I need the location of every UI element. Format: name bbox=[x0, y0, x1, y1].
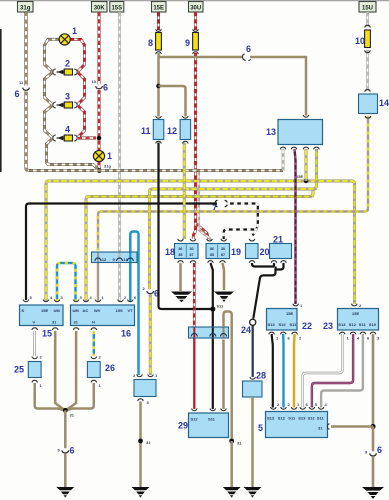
svg-text:AC: AC bbox=[83, 308, 89, 313]
wire box13 pin2 violet down to box22 bbox=[295, 149, 296, 304]
svg-text:S11: S11 bbox=[290, 322, 298, 327]
box 28 bbox=[243, 371, 267, 398]
svg-text:S11: S11 bbox=[317, 416, 325, 421]
break symbol 6 on bus B riser bbox=[143, 286, 160, 299]
wire 30K feed (red/white dashed vertical) bbox=[98, 12, 101, 84]
relay box 19 bbox=[206, 239, 241, 263]
svg-text:25: 25 bbox=[14, 365, 24, 375]
svg-text:86: 86 bbox=[210, 247, 214, 251]
svg-text:15E: 15E bbox=[296, 174, 303, 179]
wire box13 pin3 riser bbox=[305, 149, 308, 181]
svg-text:15E: 15E bbox=[286, 311, 293, 316]
wire bus B resume below break to box17 right pin bbox=[149, 295, 152, 375]
wire 31g feed lower part bbox=[26, 92, 29, 171]
break symbol 6 (left ground wire) bbox=[58, 446, 75, 456]
wire cyan/yellow loop box15 UM to box16 UM bbox=[57, 263, 76, 302]
relay box 12 bbox=[167, 116, 191, 144]
svg-text:S12: S12 bbox=[308, 416, 316, 421]
junction node 31 (tan chain) bbox=[229, 439, 242, 446]
wire box16 pin 31 to ground junction bbox=[67, 331, 77, 410]
svg-text:31: 31 bbox=[146, 440, 151, 445]
wire box 28 to ground bbox=[251, 397, 254, 487]
wire node to ground (tan chain) bbox=[230, 441, 233, 487]
junction node fuse4 row / 30K bbox=[97, 136, 102, 141]
wire grey bus y=211.5 (box14 riser across to x=98) bbox=[98, 116, 368, 251]
wire box23 S10 tan down to junction bbox=[372, 334, 375, 427]
svg-text:30: 30 bbox=[221, 247, 225, 251]
svg-text:31g: 31g bbox=[104, 164, 111, 169]
svg-text:K: K bbox=[22, 308, 25, 313]
svg-text:9: 9 bbox=[185, 38, 190, 48]
ground symbol (box 28) bbox=[244, 487, 262, 498]
wire red solid section to box29 bbox=[193, 334, 195, 409]
wire box22 S13 black to box5 bbox=[272, 334, 273, 408]
wire 30U below fuse 9 down to branch bbox=[193, 53, 195, 239]
relay unit box 29 bbox=[178, 409, 229, 438]
svg-text:12: 12 bbox=[167, 126, 177, 136]
svg-text:28: 28 bbox=[256, 371, 266, 381]
junction node at (158.5,86) bbox=[156, 84, 161, 89]
svg-text:10: 10 bbox=[92, 79, 97, 84]
fuse row 3 bbox=[53, 92, 77, 109]
svg-text:1: 1 bbox=[72, 26, 77, 36]
wire black/white dashed from break 7 to box20 and box19 bbox=[227, 204, 258, 236]
wire yellow bus B y=189 (box13 pin4 left to riser x=149.5) bbox=[150, 149, 317, 289]
break symbol 6 on 30K wire bbox=[92, 79, 109, 93]
page left edge bbox=[0, 29, 2, 172]
wire black bus y=203.5 (box15 pin K riser to break 7) bbox=[26, 204, 217, 301]
net label 15S bbox=[110, 2, 124, 13]
wire junction down to break bbox=[64, 410, 67, 448]
ladder right side (red/white dashed) bbox=[70, 39, 96, 138]
svg-text:2: 2 bbox=[65, 59, 70, 69]
svg-text:S13: S13 bbox=[298, 416, 306, 421]
wire black/white dashed branch to box19 right pin bbox=[224, 230, 258, 240]
wire 31g feed (brown/white dashed vertical) bbox=[24, 12, 27, 86]
wire break to ground (right) bbox=[372, 457, 375, 487]
ground symbol (tan chain) bbox=[223, 487, 241, 498]
ground symbol (right) bbox=[362, 487, 384, 499]
svg-text:10: 10 bbox=[355, 36, 365, 46]
net label 30K bbox=[92, 2, 108, 13]
ladder left side (tan/white dashed) bbox=[45, 39, 100, 170]
svg-text:6: 6 bbox=[246, 44, 251, 54]
connector strip bar 2 (above box 29) bbox=[189, 327, 229, 338]
junction node lamp to 31g bus bbox=[97, 168, 102, 173]
svg-text:15S: 15S bbox=[111, 5, 122, 11]
display box 17 bbox=[133, 373, 158, 405]
break symbol 6 (right ground wire) bbox=[365, 445, 382, 456]
wire box5 pin31 right to junction bbox=[331, 425, 373, 428]
svg-text:30U: 30U bbox=[190, 5, 201, 11]
svg-text:S12: S12 bbox=[279, 322, 287, 327]
wire box19 left pin black to S11 node and box29 bbox=[211, 263, 213, 409]
relay box 18 bbox=[165, 239, 198, 263]
ground symbol (under box 18) bbox=[171, 292, 192, 303]
wire grey companion from 31g bus to box19 left pin bbox=[199, 172, 210, 240]
fuse row 4 bbox=[53, 125, 77, 142]
svg-text:30: 30 bbox=[190, 247, 194, 251]
svg-text:S11: S11 bbox=[288, 416, 296, 421]
wire box 26 to ground junction bbox=[66, 383, 94, 410]
ground symbol (under box 19, S11) bbox=[214, 292, 234, 303]
break symbol 6 on y57 wire bbox=[242, 44, 251, 60]
instrument unit box 16 bbox=[71, 295, 138, 339]
net label 15E bbox=[152, 2, 167, 13]
svg-text:31: 31 bbox=[70, 413, 75, 418]
net label 15U bbox=[359, 2, 376, 13]
wire 30U feed (red/white dashed) to fuse 9 bbox=[194, 12, 197, 30]
svg-text:14: 14 bbox=[379, 98, 389, 108]
svg-text:UM: UM bbox=[73, 308, 80, 313]
wire lamp1 bottom to 31g bus bbox=[98, 161, 101, 171]
wire red branch to box19 left pin bbox=[197, 224, 209, 239]
svg-text:6: 6 bbox=[377, 445, 382, 455]
svg-text:85: 85 bbox=[179, 253, 183, 257]
wire box13 pin1 riser to 31g bus bbox=[282, 149, 285, 171]
connector box 22 bbox=[267, 303, 313, 341]
svg-text:S12: S12 bbox=[278, 416, 286, 421]
svg-text:8: 8 bbox=[148, 38, 153, 48]
svg-text:15E: 15E bbox=[41, 308, 48, 313]
wire junction down to break (right) bbox=[372, 427, 375, 452]
net label 30U bbox=[189, 2, 204, 13]
svg-text:S13: S13 bbox=[268, 322, 276, 327]
switch box 21 bbox=[270, 235, 292, 263]
svg-text:26: 26 bbox=[105, 363, 115, 373]
wire box23 S13 white to box5 pin6 bbox=[303, 334, 343, 408]
svg-text:UM: UM bbox=[54, 308, 61, 313]
wire box23 S12 violet to box5 pin5 bbox=[312, 334, 353, 408]
control unit box 13 bbox=[266, 115, 323, 149]
svg-text:11: 11 bbox=[141, 126, 151, 136]
wire fuse 10 to box 14 bbox=[366, 50, 369, 91]
svg-text:23: 23 bbox=[323, 321, 333, 331]
main unit box 5 bbox=[258, 402, 330, 438]
wire box16 pin H cyan/yellow to box 26 bbox=[93, 331, 96, 356]
svg-text:S13: S13 bbox=[267, 416, 275, 421]
svg-text:1: 1 bbox=[107, 151, 112, 161]
svg-text:31g: 31g bbox=[20, 5, 31, 11]
connector strip bar (components 12/9/11 plugs) bbox=[92, 252, 138, 263]
box 14 bbox=[359, 90, 389, 119]
resistor box 25 bbox=[14, 355, 43, 389]
svg-text:6: 6 bbox=[103, 83, 108, 93]
svg-text:3: 3 bbox=[65, 92, 70, 102]
svg-text:6: 6 bbox=[15, 89, 20, 99]
wire from bar2 third plug up and over to lower ground chain bbox=[224, 312, 232, 442]
svg-text:H: H bbox=[92, 319, 95, 324]
svg-text:S11: S11 bbox=[208, 417, 216, 422]
svg-text:87: 87 bbox=[190, 253, 194, 257]
svg-text:4: 4 bbox=[65, 125, 70, 135]
ground junction node 31 (left) bbox=[63, 408, 75, 418]
wire cyan loop box16 VT to box17 left pin bbox=[130, 232, 138, 376]
connector circle 24 bbox=[241, 319, 256, 335]
wire break to ground (left) bbox=[64, 454, 67, 487]
svg-text:VT: VT bbox=[128, 308, 134, 313]
svg-text:31: 31 bbox=[318, 426, 323, 431]
svg-text:85: 85 bbox=[210, 253, 214, 257]
wire yellow bus A y=181 (box15 pin 15E to box13 pin3 to box23) bbox=[46, 181, 355, 304]
svg-text:12: 12 bbox=[102, 257, 107, 262]
svg-text:31: 31 bbox=[52, 319, 57, 324]
wire tan bus y57 from fuse8 to corner above box13 bbox=[159, 57, 307, 116]
svg-text:86: 86 bbox=[179, 247, 183, 251]
svg-text:S11: S11 bbox=[217, 304, 225, 309]
svg-text:30K: 30K bbox=[94, 5, 106, 11]
svg-text:31: 31 bbox=[74, 319, 79, 324]
ground symbol (left) bbox=[56, 487, 74, 498]
wire branch to box 12 bbox=[159, 86, 186, 117]
wire connector 24 to box 28 (navy) bbox=[252, 326, 254, 378]
wire box22 S11 yellow to box5 bbox=[293, 334, 296, 408]
switch box 20 bbox=[246, 239, 270, 263]
wire yellow bus C y=196.5 (box16 pin AC to box13 pin4 corner) bbox=[86, 190, 313, 303]
svg-text:13: 13 bbox=[266, 127, 276, 137]
wire 30K feed lower part to junction and lamp bbox=[98, 90, 101, 151]
svg-text:24: 24 bbox=[241, 325, 251, 335]
sensor box 26 bbox=[87, 355, 115, 389]
svg-text:15S: 15S bbox=[116, 308, 123, 313]
svg-text:20: 20 bbox=[260, 247, 270, 257]
wire box18 left pin to ground bbox=[179, 263, 182, 291]
junction node S11 bbox=[210, 304, 224, 312]
connector box 23 bbox=[323, 303, 380, 341]
svg-text:15: 15 bbox=[42, 329, 52, 339]
svg-text:87: 87 bbox=[221, 253, 225, 257]
wire box15 pin 31 to ground junction bbox=[55, 331, 64, 410]
svg-text:6: 6 bbox=[70, 446, 75, 456]
fuse 9 bbox=[185, 29, 198, 54]
wire bar2 third plug down to box29 pin3 bbox=[222, 340, 225, 410]
wire tan below fuse 8 down to junction and box 11 bbox=[157, 53, 160, 117]
ground symbol (box17) bbox=[132, 487, 150, 498]
net label 31g bbox=[18, 2, 34, 13]
svg-text:S11: S11 bbox=[359, 322, 367, 327]
wire 31g ground bus y=170.5 bbox=[29, 169, 283, 172]
svg-text:S13: S13 bbox=[338, 322, 346, 327]
svg-text:22: 22 bbox=[302, 321, 312, 331]
fuse row 2 (connector arrows + fuse) bbox=[53, 59, 77, 76]
page top edge bbox=[0, 0, 389, 2]
wire box12 yellow output down to box18 left pin bbox=[183, 143, 186, 240]
wire 15U feed (grey/white dashed) to fuse 10 bbox=[366, 12, 369, 27]
lamp 1 (top) bbox=[59, 26, 77, 45]
wire grey below connector bar to box16 pin WV bbox=[97, 263, 99, 302]
wire box 25 to ground junction bbox=[35, 383, 65, 410]
wire box11 black output to S11 node bbox=[159, 143, 213, 310]
svg-text:18: 18 bbox=[165, 247, 175, 257]
relay box 11 bbox=[141, 116, 164, 144]
junction node box5 pin31 / tan bbox=[370, 424, 375, 429]
junction node 31 on box17 ground wire bbox=[138, 439, 151, 445]
break symbol 7 (connector pair) bbox=[212, 200, 227, 213]
wire box20+box21 pins merge down to connector 24 bbox=[252, 263, 284, 319]
fuse 8 bbox=[148, 29, 161, 54]
svg-text:15E: 15E bbox=[153, 5, 164, 11]
svg-text:V: V bbox=[33, 319, 36, 324]
svg-text:29: 29 bbox=[178, 421, 188, 431]
instrument unit box 15 bbox=[20, 295, 64, 339]
junction node bus A / box13 pin3 bbox=[304, 178, 309, 183]
svg-text:S10: S10 bbox=[369, 322, 377, 327]
svg-text:31: 31 bbox=[237, 441, 242, 446]
wire box15 pin V white to box 25 bbox=[33, 331, 36, 356]
svg-text:16: 16 bbox=[121, 329, 131, 339]
lamp 1 (bottom, on 30K line) bbox=[93, 150, 112, 161]
wire 15S feed (grey/white dashed vertical, to box16 pin 15S) bbox=[118, 12, 121, 302]
wire box17 to ground bbox=[139, 402, 142, 488]
fuse 10 bbox=[355, 25, 370, 52]
svg-text:19: 19 bbox=[231, 247, 241, 257]
break symbol 6 on 31g wire bbox=[15, 80, 30, 99]
wire box22 S12 cyan to box5 bbox=[282, 334, 285, 408]
wire box19 right pin to ground bbox=[223, 263, 225, 290]
svg-text:15E: 15E bbox=[352, 311, 359, 316]
svg-text:5: 5 bbox=[258, 423, 263, 433]
svg-text:S12: S12 bbox=[191, 417, 199, 422]
wire box18 right pin red to box29 (dashed section) bbox=[193, 263, 196, 328]
wire box23 S11 grey to box5 pin4 bbox=[321, 334, 363, 408]
svg-text:S12: S12 bbox=[349, 322, 357, 327]
wire 15E feed (dark red/white dashed) to fuse 8 bbox=[157, 12, 160, 30]
svg-text:WV: WV bbox=[94, 308, 101, 313]
svg-text:15U: 15U bbox=[362, 5, 373, 11]
